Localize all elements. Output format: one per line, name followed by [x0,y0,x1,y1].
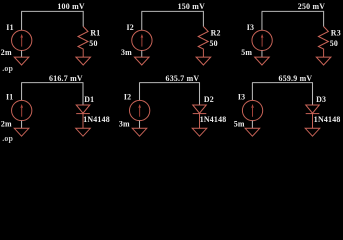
current source I1 [12,100,32,120]
svg-text:5m: 5m [234,120,245,129]
svg-text:I2: I2 [127,23,134,32]
wire [199,83,201,105]
current source I1 [12,30,32,50]
wire [251,83,253,101]
svg-text:D1: D1 [84,95,94,104]
svg-text:D2: D2 [204,95,214,104]
ground [192,128,207,136]
svg-text:100 mV: 100 mV [57,2,84,11]
node (bottom) wire [139,82,200,84]
ground [196,57,211,65]
svg-text:1N4148: 1N4148 [200,115,227,124]
svg-text:R3: R3 [331,29,341,38]
svg-text:.op: .op [2,134,13,143]
ground [305,128,320,136]
wire [261,51,263,58]
diode D2 [193,105,207,128]
svg-text:50: 50 [330,39,338,48]
svg-text:659.9 mV: 659.9 mV [279,74,313,83]
current source I2 [132,30,152,50]
current source I2 [130,100,150,120]
svg-text:1N4148: 1N4148 [314,115,341,124]
svg-text:I3: I3 [238,92,245,101]
ground [132,128,147,136]
node N002 top wire [141,10,204,12]
wire [21,83,23,101]
node N001 top wire [21,10,83,12]
node (bottom) wire [21,82,83,84]
wire [139,83,141,101]
svg-text:R2: R2 [211,29,221,38]
svg-text:I3: I3 [247,23,254,32]
ground [316,57,331,65]
wire [139,121,141,129]
node N003 top wire [262,10,325,12]
wire [141,11,143,30]
resistor R1 [78,27,88,58]
svg-text:1N4148: 1N4148 [83,115,110,124]
svg-text:50: 50 [210,39,218,48]
ground [76,57,91,65]
resistor R2 [198,27,208,58]
wire [21,11,23,30]
svg-text:I1: I1 [6,92,13,101]
svg-text:I2: I2 [124,92,131,101]
ground [14,57,29,65]
ground [134,57,149,65]
svg-text:250 mV: 250 mV [298,2,325,11]
svg-text:3m: 3m [121,48,132,57]
svg-text:I1: I1 [6,23,13,32]
wire [261,11,263,30]
node (bottom) wire [252,82,313,84]
wire [141,51,143,58]
resistor R3 [318,27,328,58]
diode D1 [76,105,90,128]
ground [255,57,270,65]
wire [251,121,253,129]
svg-text:D3: D3 [316,95,326,104]
svg-text:3m: 3m [119,120,130,129]
svg-text:150 mV: 150 mV [178,2,205,11]
wire [312,83,314,105]
svg-text:635.7 mV: 635.7 mV [166,74,200,83]
svg-text:2m: 2m [1,120,12,129]
wire [323,11,325,26]
current source I3 [242,100,262,120]
svg-text:50: 50 [89,39,97,48]
ground [14,128,29,136]
svg-text:2m: 2m [1,48,12,57]
svg-text:R1: R1 [90,29,100,38]
wire [82,83,84,105]
svg-text:.op: .op [2,64,13,73]
ground [76,128,91,136]
ground [245,128,260,136]
svg-text:5m: 5m [241,48,252,57]
wire [202,11,204,26]
svg-text:616.7 mV: 616.7 mV [49,74,83,83]
diode D3 [306,105,320,128]
wire [21,121,23,129]
wire [82,11,84,26]
wire [21,51,23,58]
current source I3 [252,30,272,50]
